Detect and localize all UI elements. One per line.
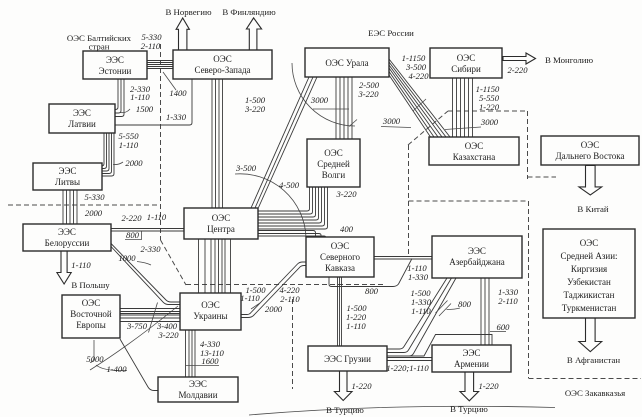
svg-text:5-330: 5-330	[84, 192, 105, 202]
callout slash Georgia-Azerbaijan	[436, 301, 452, 317]
box OES North-West	[173, 50, 272, 79]
box EES Estonia	[83, 51, 147, 79]
svg-text:ЭЭС: ЭЭС	[189, 379, 207, 389]
wire bundle Urals-Kazakhstan 6 lines	[389, 59, 450, 137]
wire bundle Center-NorthCaucasus 3 lines	[258, 231, 326, 238]
svg-text:ОЭС Закавказья: ОЭС Закавказья	[565, 388, 625, 398]
svg-text:3000: 3000	[480, 117, 499, 127]
svg-text:ОЭС: ОЭС	[580, 238, 598, 248]
box OES Eastern Europe	[62, 295, 120, 338]
callout leader 1000	[137, 262, 151, 266]
svg-text:ОЭС: ОЭС	[465, 141, 483, 151]
box EES Lithuania	[33, 163, 102, 190]
svg-text:Эстонии: Эстонии	[99, 66, 132, 76]
callout leader 600	[490, 331, 506, 333]
svg-text:Белоруссии: Белоруссии	[45, 238, 90, 248]
svg-text:4-500: 4-500	[279, 180, 300, 190]
svg-text:1-110: 1-110	[147, 212, 167, 222]
svg-text:В Китай: В Китай	[577, 204, 608, 214]
wire bundle Belarus-Ukraine 2 lines	[111, 244, 180, 305]
wire bundle Georgia-Azerbaijan 3 lines	[387, 278, 456, 356]
svg-text:ОЭС: ОЭС	[213, 54, 231, 64]
svg-text:Северо-Запада: Северо-Запада	[194, 65, 250, 75]
svg-text:ОЭС: ОЭС	[581, 140, 599, 150]
svg-text:Казахстана: Казахстана	[453, 152, 496, 162]
callout leader 1400	[163, 72, 176, 90]
svg-text:Кавказа: Кавказа	[325, 263, 355, 273]
wire bundle NorthCaucasus-Azerbaijan 2 lines	[374, 257, 432, 260]
wire bundle Latvia-Lithuania 5 lines	[102, 133, 115, 176]
box EES Belarus	[23, 224, 111, 251]
wire bundle Siberia-Kazakhstan 6 lines	[453, 78, 473, 137]
wire bundle Estonia-NorthWest 5 lines	[147, 61, 173, 69]
wire bundle Urals-Center 3 lines	[251, 77, 317, 208]
svg-text:Украины: Украины	[193, 311, 227, 321]
svg-text:Армении: Армении	[454, 359, 489, 369]
box EES Azerbaijan	[432, 236, 522, 278]
svg-text:Таджикистан: Таджикистан	[564, 290, 615, 300]
svg-text:2-220: 2-220	[121, 213, 142, 223]
svg-text:800: 800	[126, 230, 140, 240]
arrow to Afghanistan	[579, 318, 602, 352]
svg-text:В Финляндию: В Финляндию	[222, 7, 276, 17]
svg-text:2000: 2000	[125, 158, 143, 168]
dashed border: Transcaucasia south horizontal	[529, 378, 642, 380]
arc west of Urals	[292, 63, 355, 126]
svg-text:ОЭС: ОЭС	[82, 298, 100, 308]
arrow to Norway	[176, 18, 189, 50]
wire bundle Ukraine-Moldova 4 lines	[186, 330, 196, 377]
box EES Georgia	[308, 346, 387, 371]
callout leader 1-400	[96, 365, 127, 371]
svg-text:ОЭС Урала: ОЭС Урала	[325, 58, 368, 68]
svg-text:В Польшу: В Польшу	[71, 280, 110, 290]
svg-text:Средней: Средней	[317, 159, 350, 169]
svg-text:В Монголию: В Монголию	[545, 55, 594, 65]
arrow to China	[579, 166, 602, 196]
callout leader 3000 Urals-Kazakhstan	[381, 127, 411, 128]
wire bundle Urals-Volga 5 lines	[336, 77, 352, 139]
svg-text:Дальнего Востока: Дальнего Востока	[555, 151, 624, 161]
svg-text:ОЭС: ОЭС	[457, 53, 475, 63]
arrow to Finland	[246, 18, 261, 50]
svg-text:2-220: 2-220	[507, 65, 528, 75]
svg-text:800: 800	[458, 299, 472, 309]
svg-text:В Турцию: В Турцию	[450, 404, 488, 414]
dashed border: Central Asia west vertical	[528, 201, 530, 378]
callout leader 1600	[186, 365, 220, 367]
box EES Armenia	[432, 345, 511, 372]
svg-text:Азербайджана: Азербайджана	[449, 257, 505, 267]
callout slash Urals-Kazakhstan	[413, 99, 426, 111]
dashed border: Central Asia north horizontal	[409, 200, 529, 202]
box OES Siberia	[430, 48, 502, 78]
svg-text:ЭЭС Грузии: ЭЭС Грузии	[324, 354, 371, 364]
svg-text:Латвии: Латвии	[68, 119, 96, 129]
box OES Middle Volga	[307, 139, 360, 187]
svg-text:1-220: 1-220	[478, 381, 499, 391]
svg-text:1-220;1-110: 1-220;1-110	[386, 363, 429, 373]
svg-text:ЭЭС: ЭЭС	[58, 227, 76, 237]
svg-text:Туркменистан: Туркменистан	[562, 303, 617, 313]
svg-text:ЭЭС: ЭЭС	[468, 246, 486, 256]
svg-text:Сибири: Сибири	[451, 64, 481, 74]
wire bundle Belarus-Center 2 lines	[111, 229, 184, 232]
wire bundle Azerbaijan-Armenia 3 lines	[481, 278, 489, 345]
svg-text:3-750: 3-750	[126, 321, 148, 331]
svg-text:1-220: 1-220	[351, 381, 372, 391]
svg-text:1600: 1600	[201, 356, 219, 366]
box OES Kazakhstan	[429, 137, 519, 165]
svg-text:1-110: 1-110	[119, 140, 139, 150]
callout leader 3000 west	[313, 108, 349, 110]
wire bundle Lithuania-Belarus 5 lines	[63, 190, 77, 224]
dashed border: Baltic states / Russia vertical	[160, 44, 162, 240]
arrow Armenia to Turkey	[460, 372, 479, 401]
svg-text:5000: 5000	[86, 354, 104, 364]
svg-text:1-110: 1-110	[411, 306, 431, 316]
wire bundle Center-Ukraine 8 lines	[199, 239, 231, 293]
arc between Center and Volga	[235, 174, 306, 237]
box OES North Caucasus	[306, 237, 374, 277]
svg-text:600: 600	[497, 322, 511, 332]
svg-text:ОЭС: ОЭС	[201, 300, 219, 310]
svg-text:1-220: 1-220	[479, 102, 500, 112]
svg-text:2000: 2000	[265, 304, 283, 314]
svg-text:Северного: Северного	[320, 252, 361, 262]
svg-text:1-110: 1-110	[130, 92, 150, 102]
svg-text:Средней Азии:: Средней Азии:	[560, 251, 617, 261]
dashed border: Kazakhstan northwest diagonal	[408, 111, 448, 145]
dashed border: Kazakhstan southeast stub	[528, 177, 557, 179]
svg-text:В Турцию: В Турцию	[326, 405, 364, 415]
svg-text:В Норвегию: В Норвегию	[165, 7, 212, 17]
svg-text:1-110: 1-110	[240, 293, 260, 303]
wire bundle NorthWest-Center 4 lines	[212, 79, 223, 208]
svg-text:800: 800	[365, 286, 379, 296]
arc along bottom	[249, 406, 555, 415]
svg-text:1000: 1000	[118, 253, 136, 263]
dashed border: Kazakhstan west vertical	[408, 145, 410, 257]
dashed border: Russia-Georgia vertical	[292, 299, 294, 389]
box OES Far East	[541, 136, 639, 165]
box EES Latvia	[49, 104, 115, 133]
svg-text:ЭЭС: ЭЭС	[73, 108, 91, 118]
svg-text:3-220: 3-220	[157, 330, 179, 340]
svg-text:1500: 1500	[136, 104, 154, 114]
svg-text:ЕЭС России: ЕЭС России	[368, 28, 414, 38]
svg-text:ЭЭС: ЭЭС	[59, 166, 77, 176]
svg-text:3000: 3000	[382, 116, 401, 126]
svg-text:2-110: 2-110	[280, 294, 300, 304]
callout slash 3-750 Ukraine	[149, 303, 158, 333]
svg-text:Восточной: Восточной	[70, 309, 112, 319]
svg-text:1-110: 1-110	[346, 321, 366, 331]
svg-text:стран: стран	[89, 42, 110, 52]
wire bundle EasternEurope-Ukraine 6 lines	[120, 309, 180, 322]
wire EasternEurope-Moldova	[120, 339, 158, 391]
svg-text:2-110: 2-110	[498, 296, 518, 306]
callout leader 1500	[120, 109, 130, 113]
box OES Urals	[305, 48, 389, 77]
svg-text:1-400: 1-400	[106, 364, 127, 374]
svg-text:Киргизия: Киргизия	[571, 264, 607, 274]
callout leader 800 Belarus	[125, 232, 142, 240]
arrow to Poland	[57, 251, 71, 284]
svg-text:2-330: 2-330	[140, 244, 161, 254]
svg-text:ОЭС: ОЭС	[324, 148, 342, 158]
svg-text:Молдавии: Молдавии	[178, 390, 217, 400]
callout slash Urals-Volga	[349, 120, 357, 127]
box OES Center	[184, 208, 258, 239]
svg-text:400: 400	[340, 224, 354, 234]
box OES Central Asia	[543, 229, 635, 318]
svg-text:3000: 3000	[310, 95, 329, 105]
dashed border: Kazakhstan north horizontal	[448, 110, 526, 112]
svg-text:3-500: 3-500	[235, 163, 257, 173]
svg-text:3-220: 3-220	[335, 189, 357, 199]
svg-text:1-330: 1-330	[408, 272, 429, 282]
svg-text:Узбекистан: Узбекистан	[567, 277, 611, 287]
dashed border: Russia-Ukraine horizontal	[186, 284, 383, 286]
svg-text:Центра: Центра	[207, 224, 235, 234]
svg-text:ОЭС: ОЭС	[331, 241, 349, 251]
wire Latvia-NorthWest 1-330	[115, 79, 192, 125]
svg-text:1400: 1400	[169, 88, 187, 98]
arrow Georgia to Turkey	[334, 371, 352, 401]
callout leader 5000	[90, 340, 94, 363]
arrow to Mongolia	[503, 53, 536, 64]
box OES Ukraine	[180, 293, 241, 330]
svg-text:1-110: 1-110	[71, 260, 91, 270]
svg-text:1-330: 1-330	[166, 112, 187, 122]
wire bundle Estonia-Latvia 3 lines	[115, 79, 124, 117]
dashed border: Russia-Belarus diagonal	[161, 240, 187, 285]
wire Georgia-Armenia 600 line	[387, 335, 492, 357]
wire bundle Volga-Center 7 lines	[258, 187, 328, 229]
svg-text:ОЭС: ОЭС	[212, 213, 230, 223]
arc near Eastern Europe	[90, 306, 178, 370]
dashed border: Kazakhstan east vertical	[527, 111, 529, 177]
svg-text:ЭЭС: ЭЭС	[106, 55, 124, 65]
wire bundle NorthCaucasus-Georgia 3 lines	[338, 277, 342, 346]
callout leader 800 Georgia-Azerbaijan	[447, 308, 461, 310]
svg-text:3-220: 3-220	[244, 104, 266, 114]
svg-text:4-220: 4-220	[408, 71, 429, 81]
svg-text:2-110: 2-110	[141, 41, 161, 51]
dashed border: Baltic / Belarus horizontal	[8, 204, 161, 206]
svg-text:ЭЭС: ЭЭС	[463, 348, 481, 358]
svg-text:Волги: Волги	[322, 170, 346, 180]
callout slash Ukraine-NorthCaucasus	[251, 303, 260, 309]
svg-text:Европы: Европы	[76, 320, 106, 330]
svg-text:В Афганистан: В Афганистан	[567, 355, 620, 365]
wire bundle Ukraine-NorthCaucasus 2 lines	[241, 262, 306, 318]
wire bundle Georgia-Armenia 2 lines	[387, 358, 432, 361]
callout leader 2000 Baltic	[113, 162, 123, 165]
box EES Moldova	[158, 377, 238, 402]
wire NorthCaucasus south bend to Azerbaijan	[329, 259, 412, 287]
callout leader 3000 Siberia-Kazakhstan	[445, 127, 481, 130]
svg-text:2000: 2000	[85, 208, 103, 218]
svg-text:Литвы: Литвы	[55, 177, 80, 187]
svg-text:3-220: 3-220	[357, 89, 379, 99]
